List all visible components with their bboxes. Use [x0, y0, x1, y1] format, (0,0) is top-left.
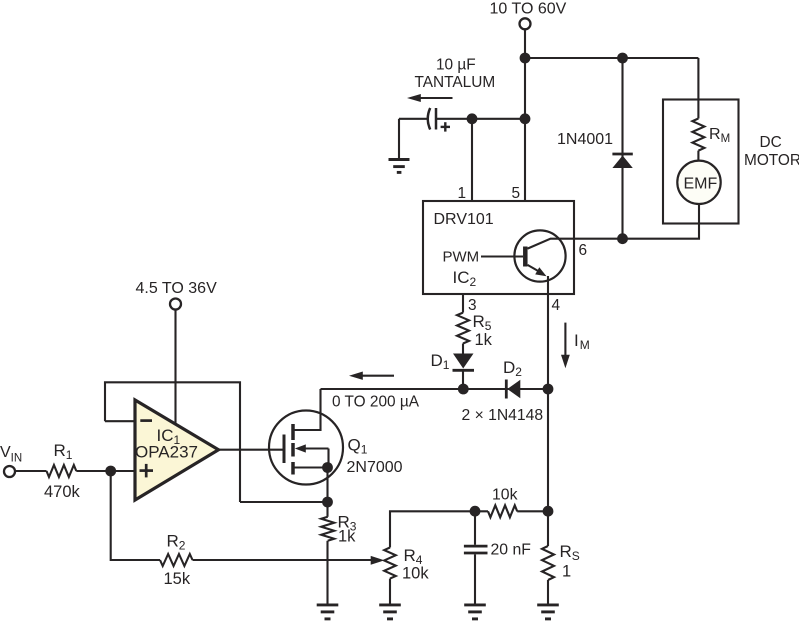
wire R1 to opamp — [76, 470, 135, 472]
ground R4 — [379, 605, 401, 619]
svg-text:4.5 TO 36V: 4.5 TO 36V — [136, 280, 218, 297]
dc motor box — [663, 100, 739, 224]
wire RM to EMF — [697, 151, 699, 161]
ground tantalum — [389, 160, 410, 173]
svg-text:VIN: VIN — [0, 444, 22, 464]
diode 1N4001 — [612, 58, 632, 239]
svg-text:PWM: PWM — [443, 249, 480, 266]
wire current node horizontal — [321, 388, 549, 390]
svg-text:6: 6 — [579, 242, 588, 259]
wire junction down to R2 — [111, 471, 160, 560]
label plus opamp — [140, 464, 154, 478]
op-amp IC1 OPA237 — [135, 400, 219, 500]
arrow tantalum — [407, 94, 453, 102]
supply terminal 10 TO 60V — [520, 18, 531, 29]
wire opamp power — [174, 310, 176, 425]
resistor 10k filter — [488, 505, 517, 517]
wire VIN to R1 — [15, 470, 47, 472]
svg-text:OPA237: OPA237 — [135, 443, 198, 462]
wire 10k to RS node — [517, 510, 548, 512]
node cap junction pin1 — [467, 113, 478, 124]
wire feedback top — [105, 382, 240, 502]
wire pin 4 — [547, 294, 549, 389]
node pin6 diode junction — [617, 233, 628, 244]
svg-text:15k: 15k — [164, 570, 191, 588]
svg-text:470k: 470k — [44, 483, 81, 501]
svg-text:2N7000: 2N7000 — [347, 459, 403, 476]
svg-text:EMF: EMF — [684, 176, 718, 193]
resistor R2 — [160, 554, 193, 566]
label plus — [441, 122, 450, 131]
svg-text:20 nF: 20 nF — [491, 542, 532, 559]
svg-text:DC: DC — [760, 134, 782, 151]
motor EMF source — [677, 161, 720, 204]
wire motor bottom — [623, 204, 700, 239]
resistor R1 — [47, 465, 77, 477]
svg-text:10 µF: 10 µF — [436, 57, 476, 74]
svg-text:Q1: Q1 — [348, 436, 368, 457]
svg-text:R2: R2 — [167, 532, 186, 553]
svg-text:4: 4 — [552, 297, 561, 314]
transistor inside DRV101 — [481, 230, 574, 294]
wire pin4 node down to RS — [547, 389, 549, 546]
node RS junction — [543, 506, 554, 517]
svg-text:1: 1 — [458, 185, 467, 202]
ground 20nF — [464, 605, 486, 619]
node supply junction — [520, 53, 531, 64]
diode D1 — [453, 354, 475, 390]
IC2 DRV101 box — [423, 201, 574, 294]
svg-text:1k: 1k — [475, 331, 493, 349]
svg-text:10k: 10k — [492, 487, 518, 504]
capacitor 20nF — [464, 511, 488, 604]
wire R5 to D1 — [462, 344, 464, 354]
transistor Q1 2N7000 — [269, 389, 343, 485]
wire supply vertical top — [524, 30, 526, 58]
svg-text:R1: R1 — [54, 441, 73, 462]
wire motor branch down — [697, 58, 699, 119]
wire opamp output — [219, 449, 285, 451]
wire pin 3 — [462, 294, 464, 313]
svg-text:MOTOR: MOTOR — [744, 152, 799, 169]
svg-text:RM: RM — [709, 126, 730, 145]
supply terminal 4.5 TO 36V — [170, 299, 181, 310]
wire top rail — [525, 57, 698, 59]
wire pin 1 — [471, 119, 473, 201]
svg-text:10k: 10k — [402, 565, 429, 583]
wire minus input stub — [105, 420, 135, 422]
svg-text:1k: 1k — [338, 528, 356, 546]
resistor RM — [692, 119, 704, 151]
wire cap to pin5 rail — [472, 118, 525, 120]
wire feedback bottom — [240, 501, 328, 503]
node 20nF junction — [470, 506, 481, 517]
svg-text:IM: IM — [574, 331, 590, 352]
ground R3 — [317, 605, 339, 619]
svg-text:1N4001: 1N4001 — [557, 131, 613, 148]
node cap junction pin5 — [520, 113, 531, 124]
ground RS — [537, 605, 559, 619]
svg-text:IC2: IC2 — [453, 268, 477, 289]
potentiometer R4 — [384, 548, 396, 579]
svg-text:0 TO 200 µA: 0 TO 200 µA — [332, 394, 420, 411]
svg-text:DRV101: DRV101 — [434, 211, 494, 228]
wire RS to ground — [547, 580, 549, 604]
wire R4 to ground — [389, 579, 391, 604]
wire pin 5 — [524, 58, 526, 201]
node plus input junction — [105, 466, 116, 477]
resistor R5 — [457, 313, 469, 344]
node pin4 junction — [543, 384, 554, 395]
resistor RS — [542, 546, 554, 580]
diode D2 — [506, 380, 520, 399]
arrow 0 to 200uA — [349, 372, 394, 380]
svg-text:D1: D1 — [431, 351, 450, 372]
svg-text:TANTALUM: TANTALUM — [415, 74, 496, 91]
svg-text:2 × 1N4148: 2 × 1N4148 — [462, 407, 544, 424]
svg-text:RS: RS — [560, 542, 580, 563]
node D1 junction — [458, 384, 469, 395]
arrow IM — [561, 323, 570, 369]
wire pin 6 line — [574, 238, 623, 240]
wire source down — [326, 468, 328, 517]
node Q1 source — [322, 462, 333, 473]
label minus — [140, 419, 152, 422]
svg-text:10 TO 60V: 10 TO 60V — [490, 1, 567, 18]
resistor R3 — [321, 517, 334, 541]
svg-text:1: 1 — [562, 563, 571, 581]
input terminal VIN — [4, 466, 15, 477]
wire R4 top — [390, 511, 488, 547]
svg-text:5: 5 — [512, 185, 521, 202]
node feedback junction — [322, 497, 333, 508]
capacitor C1 10uF tantalum — [399, 108, 472, 159]
wire R3 to ground — [326, 541, 328, 604]
wire R2 to R4 wiper arrow — [193, 556, 385, 565]
svg-text:D2: D2 — [503, 358, 522, 379]
node 1N4001 tap — [617, 53, 628, 64]
